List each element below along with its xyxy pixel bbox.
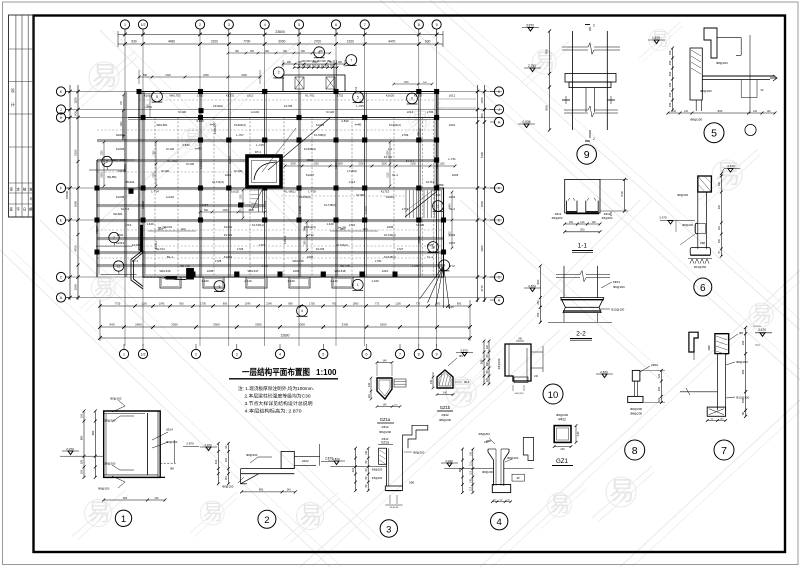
svg-text:140: 140 — [367, 382, 371, 387]
svg-text:120: 120 — [753, 110, 758, 113]
svg-text:90: 90 — [365, 484, 368, 487]
svg-text:2.870: 2.870 — [528, 284, 536, 288]
interior vertical beams — [124, 92, 126, 278]
svg-text:1750: 1750 — [309, 302, 315, 306]
svg-text:Φ8@200: Φ8@200 — [372, 468, 383, 472]
svg-text:L603: L603 — [452, 173, 459, 177]
svg-text:L-1: L-1 — [388, 147, 393, 151]
svg-text:310: 310 — [718, 204, 721, 209]
svg-text:GZ1a: GZ1a — [381, 441, 389, 445]
svg-text:h=100: h=100 — [338, 226, 347, 230]
svg-text:2.本层梁柱砼强度等级均为C30: 2.本层梁柱砼强度等级均为C30 — [245, 393, 312, 400]
svg-text:KL602(2): KL602(2) — [234, 123, 246, 127]
svg-text:2.750: 2.750 — [528, 64, 536, 68]
svg-text:KZ605: KZ605 — [417, 236, 421, 244]
watermark logos — [75, 51, 137, 107]
svg-text:3.870: 3.870 — [460, 348, 468, 352]
svg-text:50 300 500 300 50 50 300 500: 50 300 500 300 50 50 300 500 — [298, 63, 335, 67]
svg-text:L-715: L-715 — [256, 143, 264, 147]
svg-text:4Φ12: 4Φ12 — [381, 425, 389, 429]
svg-text:1: 1 — [357, 283, 359, 287]
svg-text:3.670: 3.670 — [727, 164, 735, 168]
svg-text:800: 800 — [718, 109, 723, 113]
svg-text:100: 100 — [499, 500, 503, 502]
svg-text:180: 180 — [486, 361, 489, 366]
svg-text:h=120: h=120 — [416, 223, 425, 227]
svg-text:1.340: 1.340 — [287, 279, 295, 283]
svg-text:Φ8@200: Φ8@200 — [630, 412, 642, 416]
svg-text:930: 930 — [425, 40, 431, 44]
svg-text:120: 120 — [657, 373, 661, 378]
svg-text:2.840: 2.840 — [341, 119, 349, 123]
svg-text:800: 800 — [259, 488, 264, 492]
svg-text:1200: 1200 — [154, 150, 156, 156]
svg-text:7: 7 — [350, 58, 352, 62]
svg-text:L604: L604 — [449, 195, 456, 199]
svg-text:100: 100 — [80, 469, 84, 474]
svg-text:2.840: 2.840 — [182, 143, 190, 147]
svg-text:2600: 2600 — [135, 322, 142, 326]
svg-text:2.070: 2.070 — [205, 443, 212, 447]
svg-text:h=100: h=100 — [356, 193, 365, 197]
svg-text:KL614: KL614 — [224, 255, 233, 259]
svg-text:Φ8@200: Φ8@200 — [716, 61, 728, 65]
svg-text:Φ8@200: Φ8@200 — [482, 470, 493, 474]
svg-text:WKL729: WKL729 — [292, 259, 303, 263]
svg-text:780: 780 — [545, 49, 549, 54]
svg-text:Φ8: Φ8 — [516, 477, 520, 480]
svg-text:E: E — [498, 219, 501, 223]
svg-text:F: F — [60, 187, 63, 191]
svg-text:900: 900 — [436, 302, 441, 306]
svg-text:L609: L609 — [293, 269, 300, 273]
svg-text:6Φ12: 6Φ12 — [613, 280, 621, 284]
detail 3: wall footing section — [386, 448, 388, 486]
svg-text:WKL618: WKL618 — [334, 269, 345, 273]
svg-text:880: 880 — [80, 435, 84, 440]
svg-text:600: 600 — [74, 111, 78, 116]
svg-text:一层结构平面布置图: 一层结构平面布置图 — [242, 366, 310, 377]
svg-text:2Φ8: 2Φ8 — [707, 345, 711, 351]
svg-text:GZ1b: GZ1b — [440, 405, 451, 410]
svg-text:KL603: KL603 — [316, 123, 325, 127]
svg-text:L-705: L-705 — [356, 104, 364, 108]
detail 10: wall section — [505, 344, 531, 381]
svg-text:10: 10 — [548, 390, 559, 401]
svg-text:Ln102: Ln102 — [166, 195, 174, 199]
svg-text:L605: L605 — [387, 225, 394, 229]
svg-text:140: 140 — [506, 500, 510, 502]
svg-text:2.840: 2.840 — [196, 119, 204, 123]
svg-text:800: 800 — [457, 302, 462, 306]
svg-text:160: 160 — [718, 181, 721, 186]
svg-text:190: 190 — [592, 221, 597, 224]
svg-text:4Φ12: 4Φ12 — [558, 418, 566, 422]
svg-text:110: 110 — [394, 404, 398, 406]
svg-text:L601: L601 — [449, 123, 456, 127]
svg-text:1: 1 — [124, 23, 126, 27]
svg-text:h=100: h=100 — [161, 169, 170, 173]
svg-text:Φ12@150: Φ12@150 — [736, 396, 750, 400]
svg-text:L613(2): L613(2) — [213, 104, 223, 108]
svg-text:GZ1a: GZ1a — [380, 417, 391, 422]
svg-text:1: 1 — [218, 284, 220, 288]
svg-text:KL713: KL713 — [426, 180, 435, 184]
svg-text:B(LB6): B(LB6) — [108, 175, 117, 179]
svg-text:100: 100 — [80, 413, 84, 418]
plan horizontal grid lines — [66, 91, 502, 93]
svg-text:1340: 1340 — [245, 302, 251, 306]
svg-text:1350: 1350 — [74, 97, 78, 104]
svg-text:WKL617: WKL617 — [247, 269, 258, 273]
svg-text:80: 80 — [365, 468, 368, 471]
svg-text:KL611: KL611 — [224, 225, 233, 229]
svg-text:2.870: 2.870 — [186, 442, 194, 446]
svg-text:Φ8@200: Φ8@200 — [166, 440, 178, 444]
svg-text:KL620: KL620 — [386, 94, 395, 98]
svg-text:Φ6@200: Φ6@200 — [556, 413, 568, 417]
svg-text:6: 6 — [366, 353, 368, 357]
svg-text:1500: 1500 — [290, 163, 296, 166]
svg-text:h=80: h=80 — [195, 147, 202, 151]
svg-text:h=80: h=80 — [210, 123, 217, 127]
svg-text:180: 180 — [720, 418, 724, 420]
svg-text:-0.036: -0.036 — [521, 120, 530, 124]
svg-text:1200: 1200 — [362, 229, 368, 231]
svg-text:9: 9 — [443, 264, 445, 268]
svg-text:120: 120 — [486, 344, 489, 349]
svg-text:7: 7 — [364, 23, 366, 27]
svg-text:150: 150 — [668, 92, 672, 97]
svg-text:1.340: 1.340 — [201, 279, 209, 283]
svg-text:2060: 2060 — [203, 74, 209, 77]
left dimension chain — [69, 85, 71, 300]
svg-text:L712: L712 — [349, 180, 356, 184]
svg-text:L-707: L-707 — [236, 133, 244, 137]
svg-text:3300: 3300 — [298, 322, 305, 326]
svg-text:9: 9 — [584, 149, 590, 161]
svg-text:L732: L732 — [449, 233, 456, 237]
svg-text:2Φ8: 2Φ8 — [409, 481, 415, 485]
svg-text:4: 4 — [497, 517, 502, 528]
svg-text:XL-1: XL-1 — [392, 173, 398, 177]
svg-text:7: 7 — [721, 445, 727, 457]
svg-text:2900: 2900 — [102, 172, 104, 178]
svg-text:Φ6@200: Φ6@200 — [613, 285, 625, 289]
svg-text:h=80: h=80 — [355, 123, 362, 127]
svg-text:4: 4 — [301, 309, 303, 313]
svg-text:3Φ12: 3Φ12 — [604, 212, 611, 216]
svg-text:WL726: WL726 — [180, 264, 190, 268]
svg-text:2: 2 — [199, 23, 201, 27]
svg-text:KL708(2): KL708(2) — [314, 133, 326, 137]
svg-text:L723: L723 — [259, 243, 266, 247]
svg-text:2Φ12: 2Φ12 — [382, 437, 389, 441]
svg-text:1345: 1345 — [159, 302, 165, 306]
svg-text:1.440: 1.440 — [326, 222, 334, 226]
svg-text:2700: 2700 — [314, 40, 321, 44]
svg-text:4470: 4470 — [388, 40, 395, 44]
svg-text:1/2: 1/2 — [141, 353, 146, 357]
svg-text:Φ8@200: Φ8@200 — [682, 223, 693, 227]
svg-text:1100: 1100 — [395, 302, 401, 306]
svg-text:KL608: KL608 — [116, 195, 125, 199]
svg-text:5: 5 — [322, 353, 324, 357]
svg-text:900: 900 — [287, 61, 292, 64]
svg-text:100: 100 — [657, 397, 661, 402]
svg-text:Φ8: Φ8 — [170, 467, 174, 471]
svg-text:4: 4 — [264, 23, 266, 27]
svg-text:1500: 1500 — [241, 74, 247, 77]
staircase — [405, 190, 407, 218]
svg-text:2300: 2300 — [154, 172, 156, 178]
svg-text:2100: 2100 — [347, 40, 354, 44]
svg-text:775: 775 — [416, 302, 421, 306]
svg-text:2100: 2100 — [388, 172, 390, 178]
svg-text:90,60,90: 90,60,90 — [390, 507, 399, 509]
svg-text:核: 核 — [23, 187, 27, 192]
svg-text:2: 2 — [278, 71, 280, 75]
svg-text:890: 890 — [288, 302, 293, 306]
svg-text:Φ12@150: Φ12@150 — [694, 265, 707, 269]
svg-text:150: 150 — [668, 60, 672, 65]
svg-text:2100: 2100 — [410, 163, 416, 166]
svg-text:KL-701: KL-701 — [305, 94, 315, 98]
svg-text:500: 500 — [741, 369, 745, 374]
svg-text:Ln102: Ln102 — [231, 190, 239, 194]
svg-text:900: 900 — [179, 302, 184, 306]
svg-text:L-704: L-704 — [144, 105, 152, 109]
svg-text:150: 150 — [536, 312, 540, 317]
svg-text:L612: L612 — [449, 94, 456, 98]
svg-text:140: 140 — [382, 359, 387, 362]
svg-text:Φ6@200: Φ6@200 — [372, 476, 383, 480]
svg-text:900: 900 — [235, 51, 240, 53]
svg-text:6: 6 — [700, 283, 706, 294]
svg-text:110: 110 — [469, 486, 472, 490]
svg-text:150: 150 — [668, 50, 672, 55]
svg-text:年: 年 — [30, 197, 33, 201]
detail 8: sill section — [632, 370, 640, 381]
svg-text:240: 240 — [576, 431, 580, 436]
svg-text:Φ8@200: Φ8@200 — [246, 453, 258, 457]
svg-text:1320: 1320 — [165, 74, 171, 77]
svg-text:775: 775 — [375, 302, 380, 306]
svg-text:6: 6 — [335, 23, 337, 27]
svg-text:1100: 1100 — [439, 163, 445, 166]
svg-text:1960: 1960 — [353, 302, 359, 306]
svg-text:Φ12: Φ12 — [464, 380, 470, 384]
svg-text:80: 80 — [365, 476, 368, 479]
svg-text:3: 3 — [437, 204, 439, 208]
svg-text:L-718: L-718 — [308, 190, 316, 194]
svg-text:1: 1 — [123, 353, 125, 357]
svg-text:1.670: 1.670 — [652, 36, 660, 40]
svg-text:240: 240 — [560, 447, 565, 451]
svg-text:140: 140 — [429, 379, 433, 384]
svg-text:60: 60 — [741, 412, 745, 415]
svg-text:Φ8@200: Φ8@200 — [479, 432, 491, 436]
svg-text:110: 110 — [469, 470, 472, 474]
detail 9: column elevation — [549, 31, 551, 130]
top dimension chain — [118, 34, 443, 36]
svg-text:190: 190 — [569, 221, 574, 224]
svg-text:1300: 1300 — [222, 209, 228, 212]
detail GZ1a column section — [377, 378, 392, 399]
svg-text:9: 9 — [436, 353, 438, 357]
svg-text:L730: L730 — [197, 94, 204, 98]
svg-text:8: 8 — [418, 353, 420, 357]
svg-text:KL605: KL605 — [116, 147, 125, 151]
svg-text:Φ6@200: Φ6@200 — [379, 430, 391, 434]
svg-text:2.870: 2.870 — [332, 457, 340, 461]
svg-text:Φ6@200: Φ6@200 — [515, 392, 525, 395]
svg-text:7: 7 — [399, 353, 401, 357]
svg-text:KL716: KL716 — [121, 207, 130, 211]
svg-text:TL-1: TL-1 — [427, 255, 433, 259]
svg-text:1500: 1500 — [248, 209, 254, 212]
svg-text:KZ602: KZ602 — [199, 161, 203, 169]
svg-text:L610: L610 — [382, 269, 389, 273]
svg-text:580: 580 — [480, 359, 484, 364]
svg-text:1500: 1500 — [307, 158, 314, 162]
svg-text:2.870: 2.870 — [600, 370, 608, 374]
svg-text:4770: 4770 — [480, 285, 484, 292]
svg-text:KL612(2): KL612(2) — [304, 225, 316, 229]
svg-text:H: H — [498, 121, 501, 125]
svg-text:h=100: h=100 — [234, 169, 243, 173]
svg-text:7735: 7735 — [115, 302, 121, 306]
svg-text:Ln104: Ln104 — [251, 110, 259, 114]
svg-text:600: 600 — [250, 51, 255, 53]
svg-text:900: 900 — [338, 61, 343, 64]
svg-text:3: 3 — [386, 524, 391, 535]
svg-text:F: F — [498, 187, 501, 191]
svg-text:1.440: 1.440 — [146, 222, 154, 226]
svg-text:980: 980 — [91, 430, 95, 435]
svg-text:1600: 1600 — [121, 121, 123, 127]
svg-text:700: 700 — [356, 86, 358, 91]
svg-text:1700: 1700 — [200, 302, 206, 306]
svg-text:KZ611: KZ611 — [154, 241, 158, 249]
svg-text:L732: L732 — [337, 94, 344, 98]
svg-text:KL715: KL715 — [381, 190, 390, 194]
svg-text:BY2: BY2 — [449, 264, 455, 268]
interior detail reference circles — [273, 67, 284, 78]
svg-text:K: K — [60, 90, 63, 94]
svg-text:90: 90 — [365, 460, 368, 463]
svg-text:KZ601: KZ601 — [123, 164, 127, 172]
svg-text:1720: 1720 — [403, 82, 409, 84]
svg-text:BY-1: BY-1 — [132, 259, 139, 263]
detail 2: slab step — [241, 468, 295, 470]
svg-text:22800: 22800 — [281, 333, 290, 337]
svg-text:110,110: 110,110 — [753, 326, 761, 328]
svg-text:字: 字 — [17, 207, 21, 212]
svg-text:KZ607: KZ607 — [95, 226, 99, 234]
svg-text:100: 100 — [469, 478, 472, 483]
right axis circles — [494, 87, 503, 96]
svg-text:240: 240 — [534, 375, 539, 378]
svg-text:KL609(2): KL609(2) — [299, 195, 311, 199]
svg-text:18800: 18800 — [65, 190, 69, 199]
svg-text:L-714: L-714 — [151, 190, 159, 194]
svg-text:Φ8@150: Φ8@150 — [98, 487, 110, 491]
svg-text:BL-1: BL-1 — [167, 255, 173, 259]
svg-text:240: 240 — [518, 339, 523, 341]
svg-text:900: 900 — [265, 51, 270, 53]
svg-text:140: 140 — [493, 500, 497, 502]
svg-text:500: 500 — [580, 228, 585, 232]
svg-text:4700: 4700 — [74, 245, 78, 252]
svg-text:1500: 1500 — [102, 150, 104, 156]
svg-text:240: 240 — [155, 497, 160, 500]
left axis circles — [56, 87, 65, 96]
svg-text:140: 140 — [443, 391, 448, 394]
svg-text:K: K — [498, 90, 501, 94]
svg-text:120: 120 — [767, 110, 772, 113]
svg-text:80: 80 — [486, 354, 489, 357]
svg-text:签: 签 — [10, 207, 14, 212]
columns (black squares) — [198, 138, 203, 143]
svg-text:L728: L728 — [215, 259, 222, 263]
svg-text:600: 600 — [301, 51, 306, 53]
svg-text:2-2: 2-2 — [576, 331, 586, 338]
svg-text:140: 140 — [383, 403, 388, 406]
top small roof plan — [283, 75, 345, 92]
svg-text:L706: L706 — [427, 110, 434, 114]
svg-text:3300: 3300 — [342, 322, 349, 326]
svg-text:KL-704: KL-704 — [167, 159, 177, 163]
svg-text:900: 900 — [319, 51, 324, 53]
watermark streaks — [380, 0, 800, 380]
svg-text:1800: 1800 — [480, 200, 484, 207]
svg-text:1100: 1100 — [141, 302, 147, 306]
svg-text:150: 150 — [668, 82, 672, 87]
svg-text:2.140: 2.140 — [244, 279, 252, 283]
svg-text:KL718(2): KL718(2) — [324, 203, 336, 207]
svg-text:600: 600 — [423, 82, 427, 84]
svg-text:Φ8@200: Φ8@200 — [507, 456, 519, 460]
svg-text:L-731: L-731 — [448, 157, 456, 161]
svg-text:KL731: KL731 — [226, 94, 235, 98]
svg-text:KL723(2): KL723(2) — [384, 233, 396, 237]
svg-text:QL601: QL601 — [228, 155, 232, 164]
svg-text:Φ8@200: Φ8@200 — [736, 360, 748, 364]
svg-text:3300: 3300 — [255, 322, 262, 326]
svg-text:Φ8@200: Φ8@200 — [497, 358, 501, 369]
svg-text:KL721: KL721 — [224, 233, 233, 237]
svg-text:A: A — [498, 299, 501, 303]
svg-text:J: J — [498, 108, 500, 112]
right dimension chain — [477, 85, 479, 302]
svg-text:700: 700 — [121, 100, 123, 105]
svg-text:110: 110 — [469, 461, 472, 465]
svg-text:3Φ12: 3Φ12 — [555, 212, 562, 216]
svg-text:2Φ10: 2Φ10 — [651, 363, 659, 367]
svg-text:审: 审 — [10, 187, 14, 192]
svg-text:4Φ12: 4Φ12 — [441, 413, 449, 417]
svg-text:70: 70 — [718, 251, 721, 254]
interior horizontal beams — [128, 117, 437, 119]
detail 6: wall niche section — [698, 176, 712, 192]
svg-text:150: 150 — [668, 102, 672, 107]
svg-text:4: 4 — [279, 353, 281, 357]
svg-text:Φ6@200: Φ6@200 — [700, 89, 712, 93]
svg-text:800: 800 — [223, 302, 228, 306]
detail 5: parapet section — [704, 28, 717, 58]
svg-text:1: 1 — [121, 514, 126, 525]
